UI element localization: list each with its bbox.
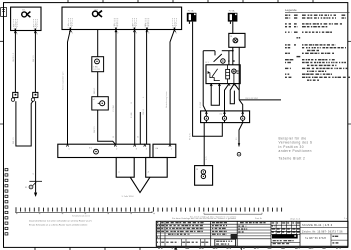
- wire stub label: [137, 136, 139, 138]
- H2 pin leader dots 5: [173, 18, 177, 27]
- svg-text:Tabelle Blatt 2: Tabelle Blatt 2: [279, 156, 306, 160]
- title block outer: [156, 221, 348, 246]
- wire label (long) pin5 wire: [165, 91, 168, 108]
- frame zone tick marks top edge: [68, 0, 313, 3]
- svg-text:Legende: Legende: [285, 8, 297, 12]
- bottom-left note lines: [29, 219, 92, 226]
- wire loop from X2a down and back up to X2b: [16, 101, 33, 146]
- fuse F1 label: [188, 10, 194, 13]
- stamp box bottom middle: [215, 239, 236, 246]
- plug housing A label: [119, 170, 121, 173]
- svg-text:3. 2a/b/ SWH: 3. 2a/b/ SWH: [122, 196, 134, 198]
- wire H1 pin1 down: [14, 31, 16, 93]
- svg-text:5: 5: [176, 32, 178, 34]
- stamp zone labels: [212, 222, 227, 235]
- svg-text:K 1: K 1: [206, 62, 210, 64]
- svg-text:Dauerstromkreise nur wenn vorh: Dauerstromkreise nur wenn vorhanden an s…: [29, 219, 92, 222]
- approval grid columns: [276, 221, 297, 234]
- revision rows: [156, 224, 271, 239]
- K1 bottom pin arrow at 234.2: [233, 84, 235, 86]
- svg-text:3: 3: [136, 148, 137, 150]
- zone label row below table: [158, 247, 341, 249]
- frame zone tick marks bottom edge: [35, 247, 140, 250]
- bypass wire label: [200, 102, 202, 108]
- svg-text:0.75: 0.75: [206, 157, 208, 161]
- note text block: [279, 136, 313, 160]
- wire label GNYE 1.5: [13, 52, 15, 62]
- relay K1 box: [206, 65, 240, 84]
- svg-text:B 1: B 1: [22, 10, 26, 12]
- legend extra second-col marks: [297, 37, 301, 57]
- svg-text:sw 0.75: sw 0.75: [16, 22, 18, 29]
- wire label right drop: [236, 138, 238, 141]
- K1 internal step contact path: [210, 73, 220, 81]
- wire B5 left pin down into K1: [232, 47, 234, 65]
- svg-text:Vorsicherung hinten: Vorsicherung hinten: [165, 91, 168, 108]
- connector box X6 (small right box): [153, 144, 176, 157]
- net label SW 0.35: [245, 98, 258, 100]
- cable merge V lines: [130, 177, 150, 192]
- svg-text:sw 0.5: sw 0.5: [175, 22, 177, 27]
- X4 terminal 1: [204, 111, 208, 123]
- B6 twin terminals: [201, 170, 205, 179]
- svg-text:X: X: [143, 96, 145, 98]
- wire S1 end arrow: [34, 193, 37, 197]
- wire labels pin4 wire: [143, 96, 145, 115]
- logo black bar: [272, 234, 298, 238]
- B6 label: [196, 169, 198, 171]
- wire label below X4: [206, 157, 208, 161]
- E3 lamp circle: [95, 59, 100, 64]
- X4 terminal 3: [241, 111, 245, 123]
- svg-text:30: 30: [113, 136, 115, 138]
- wire H2 pin2 down: [115, 30, 117, 145]
- svg-text:SW 0.5: SW 0.5: [94, 126, 96, 133]
- svg-text:30: 30: [230, 36, 232, 38]
- legend entries: [285, 15, 350, 81]
- wire labels pin2 wire: [113, 105, 115, 138]
- H1 pin leader dots: [14, 19, 38, 28]
- H2 pin 2 arrow: [115, 30, 119, 35]
- main vertical dividers: [211, 221, 300, 246]
- bypass wire left of K1 down to X4: [203, 51, 206, 111]
- X5 pin 3 arrow: [134, 144, 137, 150]
- X5 pin 2 arrow: [114, 144, 117, 150]
- svg-text:RT 0.75: RT 0.75: [189, 133, 191, 140]
- title text line 1: [302, 224, 333, 227]
- H2 pin leader dots 2: [114, 18, 118, 27]
- E4 label: [93, 99, 95, 101]
- wire F1 down, L to X4 middle terminal: [193, 22, 223, 137]
- cable merge label: [122, 196, 134, 198]
- junction dot at feed: [232, 50, 234, 52]
- DIN cell header: [240, 222, 266, 223]
- approval grid marks: [272, 222, 300, 233]
- svg-text:X 4: X 4: [220, 114, 223, 116]
- wire label F1 wire: [189, 133, 191, 140]
- arrow end terminal: [237, 143, 241, 156]
- title zone rows: [300, 228, 348, 247]
- H2 pin leader dots 1: [69, 18, 73, 27]
- svg-text:0.5: 0.5: [94, 90, 96, 93]
- wire B5 right pin down right side: [238, 47, 240, 100]
- switch S1 terminal circle: [29, 185, 33, 189]
- svg-text:GNYE 1.5: GNYE 1.5: [13, 52, 15, 62]
- stamp box text: [216, 241, 232, 245]
- svg-text:4: 4: [146, 148, 147, 150]
- H2 pin leader dots 3: [133, 18, 137, 27]
- dark revision stamp cell: [231, 234, 237, 239]
- svg-text:1 a: 1 a: [344, 218, 348, 220]
- wire label ws 1.5 left loop: [13, 137, 15, 144]
- logo text lines: [273, 240, 294, 244]
- svg-text:2b: 2b: [148, 171, 150, 173]
- svg-text:7a 987 56 373/8: 7a 987 56 373/8: [305, 238, 327, 240]
- fuse F2: [228, 13, 238, 22]
- wire K1 pin4 right branch: [234, 84, 239, 91]
- svg-text:2: 2: [117, 32, 119, 34]
- H2 pin label column pin 2: [114, 22, 119, 29]
- svg-text:Sicherungshalter vorn: Sicherungshalter vorn: [61, 72, 64, 90]
- svg-text:2: 2: [17, 33, 19, 35]
- H1 pin label column pin 2: [34, 23, 38, 30]
- svg-text:31: 31: [25, 187, 28, 189]
- component box H1 (hazard flasher unit): [11, 7, 41, 30]
- fuse F1 stub pin: [188, 22, 190, 24]
- K1 bottom pin arrow at 211.2: [210, 84, 212, 86]
- K1 bottom pin arrow at 219.4: [218, 84, 220, 86]
- wire from X2b down to switch S1: [35, 101, 37, 192]
- E3 inner labels: [93, 66, 100, 71]
- connector strip X5 (long box): [58, 144, 150, 157]
- title text line 2: [302, 231, 343, 234]
- label above H2 symbol: [95, 9, 99, 11]
- svg-text:2a: 2a: [119, 170, 121, 173]
- svg-text:0.5 SW: 0.5 SW: [200, 102, 202, 108]
- wire H1 pin2 down: [34, 31, 36, 93]
- connector X2b: [31, 92, 38, 101]
- K1 internal contact arrows: [208, 71, 210, 74]
- frame fold mark right edge: [348, 41, 351, 124]
- revision column dividers: [160, 221, 165, 239]
- svg-text:1.5 SW: 1.5 SW: [113, 105, 115, 112]
- fuse F2 stub pin: [229, 22, 231, 24]
- svg-text:Ersatz Schraube an a schema Ra: Ersatz Schraube an a schema Raster wann …: [29, 223, 88, 226]
- X5 pin 4 arrow: [144, 144, 147, 150]
- title block copyright line above: [172, 217, 348, 221]
- ruler bracket right: [190, 213, 262, 219]
- H2 pin leader dots 4: [145, 18, 149, 27]
- svg-text:1: 1: [171, 148, 172, 150]
- svg-text:5: 5: [33, 174, 35, 176]
- svg-text:Schaltschrank innen: Schaltschrank innen: [72, 214, 90, 217]
- X4 label: [220, 114, 223, 116]
- svg-text:4: 4: [37, 33, 39, 35]
- wire labels pin3 wire: [131, 102, 133, 118]
- wire horizontal to the right (net 15): [239, 99, 281, 101]
- H1 pin label column pin 1: [14, 22, 18, 30]
- svg-text:SKIZZE BL44 | 4/5.6: SKIZZE BL44 | 4/5.6: [302, 224, 333, 227]
- svg-text:3: 3: [136, 32, 138, 34]
- wire X4 t3 down with arrow end: [239, 123, 243, 147]
- svg-text:0.5: 0.5: [236, 138, 238, 141]
- K1 right pin marks: [237, 71, 239, 73]
- switch S1 labels: [25, 174, 35, 189]
- wire H2 pin3 down: [134, 30, 136, 145]
- wire X4 t1 down to B6: [203, 123, 205, 166]
- wire label RD 1.5: [94, 87, 96, 94]
- component box E3 (lamp): [92, 57, 104, 72]
- svg-text:br 0.75: br 0.75: [35, 23, 38, 29]
- svg-text:0.5 BK: 0.5 BK: [131, 112, 133, 118]
- svg-text:Zust. A: Zust. A: [255, 217, 262, 220]
- H2 pin label column pin 4: [145, 22, 150, 29]
- svg-text:15: 15: [131, 102, 133, 104]
- title text line 3: [305, 238, 327, 240]
- switch contact above K1: feed line left: [203, 51, 215, 56]
- switch bridge line to coil feed: [222, 51, 233, 65]
- switch S1 contact bar: [29, 181, 42, 185]
- wire E3 to E4: [97, 72, 99, 97]
- legend rule: [285, 11, 350, 13]
- svg-text:X 5: X 5: [89, 147, 92, 149]
- wire label (long) left of pin1 wire: [61, 72, 64, 90]
- svg-text:Zeichn. Nr. 10.987- 56373 7.56: Zeichn. Nr. 10.987- 56373 7.56: [302, 231, 343, 234]
- H2 pin 4 arrow: [146, 30, 150, 35]
- K1 coil: [226, 65, 230, 84]
- svg-text:31: 31: [196, 169, 198, 171]
- wire H2 pin1 to connector box X5: [68, 30, 71, 145]
- svg-text:4.b: 4.b: [155, 148, 158, 150]
- DIN cell texts: [238, 225, 247, 232]
- component box B6 (socket): [195, 166, 213, 186]
- perforation strip left margin: [5, 169, 8, 236]
- ruler tick row: [16, 207, 282, 211]
- B5 label: [230, 36, 232, 38]
- terminal strip X4: [201, 111, 250, 123]
- X5 label: [89, 147, 92, 149]
- component box E4 (indicator): [92, 97, 109, 110]
- bottom edge second line: [271, 242, 300, 244]
- bottom row dividers left: [160, 239, 205, 247]
- binding margin label box top-left: [1, 8, 7, 17]
- svg-text:Urspr. 1a 4: Urspr. 1a 4: [290, 218, 301, 221]
- fuse F2 label: [229, 10, 235, 13]
- svg-text:sw 0.5: sw 0.5: [135, 22, 137, 27]
- H2 pin label column pin 1: [68, 22, 73, 29]
- wire H2 pin4 down: [146, 30, 148, 145]
- wire F2 down to B5: [232, 22, 234, 34]
- X5 pin 1 arrow: [66, 144, 69, 150]
- B5 circle symbol: [233, 38, 238, 43]
- fold triangle mark: [174, 246, 177, 249]
- svg-text:andere Positionen: andere Positionen: [279, 149, 312, 153]
- H2 pin 3 arrow: [133, 30, 137, 35]
- switch contact terminal circle: [221, 59, 225, 63]
- page crease line below frame: [240, 247, 242, 250]
- svg-text:2: 2: [116, 148, 117, 150]
- svg-text:sw 0.5: sw 0.5: [147, 22, 149, 27]
- approval grid rows: [271, 225, 300, 234]
- component box B5 (diode unit): [229, 33, 245, 47]
- svg-text:WS 1.5: WS 1.5: [13, 137, 15, 144]
- component box H2 (switch module, wide): [62, 7, 182, 29]
- svg-text:Für diese Unterlage beh. wir u: Für diese Unterlage beh. wir uns alle Re…: [172, 217, 236, 220]
- symbol lamp/valve inside H1: [22, 12, 31, 18]
- svg-text:1: 1: [72, 32, 74, 34]
- frame fold mark left edge: [0, 41, 4, 124]
- wire E4 down with jog into X5: [98, 110, 116, 144]
- wire U-loop K1 pins 1-2: [211, 84, 219, 106]
- X4 terminal 2: [222, 111, 226, 123]
- wire label below E4: [94, 126, 96, 133]
- H1 pin 2 arrow: [34, 31, 38, 36]
- wire stub into X5: [139, 112, 141, 144]
- K1 bottom pin arrow at 229.0: [228, 84, 230, 86]
- fuse F1: [187, 13, 197, 22]
- wire K1 pin3 to X4 middle: [225, 84, 230, 111]
- X5 lamp circle: [94, 149, 99, 154]
- X6 label: [155, 148, 158, 150]
- junction dots near contact: [228, 60, 235, 62]
- svg-text:GN 0.5: GN 0.5: [143, 109, 145, 115]
- H2 pin 5 arrow: [173, 30, 177, 35]
- svg-text:1: 1: [69, 148, 70, 150]
- symbol lamp/valve inside H2: [93, 11, 103, 17]
- wire from H2 under symbol through E3/E4: [97, 30, 99, 57]
- legend title: [285, 8, 297, 12]
- H1 pin 1 arrow: [14, 31, 18, 36]
- wire slant down to X4 right terminal: [239, 100, 243, 111]
- svg-text:sw 0.5: sw 0.5: [116, 22, 118, 27]
- wire narrow U-loop from K1 pin4: [230, 84, 234, 104]
- plug housing B label: [148, 171, 150, 173]
- ruler bracket left: [16, 211, 152, 217]
- plug housing B below X5/X6: [146, 158, 168, 178]
- svg-text:12V 2W: 12V 2W: [93, 69, 100, 71]
- svg-text:4: 4: [148, 32, 150, 34]
- switch contact blade: [214, 54, 222, 62]
- svg-text:58: 58: [137, 136, 139, 138]
- plug housing A below X5: [116, 158, 134, 178]
- wire label between E3 and E4: [94, 90, 96, 93]
- bottom row text left: [157, 242, 208, 243]
- svg-text:SW 0.35 SW2: SW 0.35 SW2: [245, 98, 258, 100]
- H2 pin label column pin 5: [172, 22, 177, 29]
- svg-text:sw 0.5: sw 0.5: [71, 22, 73, 27]
- svg-text:SW 1.5: SW 1.5: [33, 55, 35, 62]
- K1 internal contact blade: [212, 69, 218, 77]
- H2 pin label column pin 3: [132, 22, 137, 29]
- label above H1 symbol: [22, 10, 26, 12]
- ruler faint index labels: [16, 213, 155, 214]
- relay K1 label: [206, 62, 210, 64]
- H2 pin 1 arrow: [69, 30, 73, 35]
- K1 pilot circle: [232, 69, 236, 84]
- svg-text:M 1: M 1: [95, 9, 99, 11]
- title zone small cells: [332, 236, 338, 244]
- wire H2 pin5 down to X6: [170, 30, 175, 145]
- svg-text:F1 5A: F1 5A: [188, 10, 194, 13]
- X6 pin arrow: [169, 144, 172, 150]
- svg-text:x2: x2: [93, 99, 95, 101]
- connector X2a: [11, 92, 18, 101]
- wire label SW 1.5: [33, 55, 35, 62]
- E4 lamp circle: [98, 101, 105, 106]
- svg-text:F2 5A: F2 5A: [229, 10, 235, 13]
- revision row text: [157, 222, 204, 238]
